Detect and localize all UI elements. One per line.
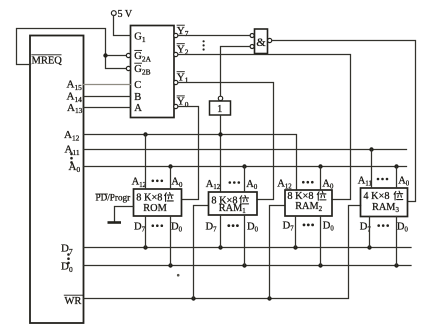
bubble Y1 output: [174, 80, 178, 84]
svg-text:RAM1: RAM1: [219, 203, 246, 215]
junction D7/RAM3: [367, 245, 371, 249]
wire MREQ loop to G2A/G2B: [17, 29, 127, 69]
svg-text:G2B: G2B: [134, 64, 150, 76]
svg-text:G2A: G2A: [134, 51, 151, 63]
ellipsis between Y7 and Y2 wires: [203, 40, 205, 50]
label MREQ (CPU pin): [31, 55, 62, 67]
wire RAM2 D0 pin: [320, 216, 322, 266]
power +5V terminal: [111, 9, 132, 20]
svg-text:A0: A0: [171, 177, 183, 189]
svg-text:D0: D0: [247, 222, 259, 234]
junction D7/RAM1: [218, 245, 222, 249]
wire gate output to RAM3 CS: [272, 41, 416, 202]
wire gate input 2 to inverter output: [221, 47, 251, 97]
svg-text:MREQ: MREQ: [32, 56, 63, 67]
bubble gate input 2: [250, 45, 254, 49]
wire RAM1 A0 pin: [244, 167, 246, 193]
wire ROM PD pin to ground: [115, 207, 134, 222]
wire RAM3 A11 pin: [371, 150, 373, 189]
wire Y1 to RAM1 CS: [178, 83, 274, 200]
wire Y2 to RAM2 CS: [178, 55, 351, 200]
CPU box: [30, 36, 84, 324]
wire ROM A0 pin: [170, 167, 172, 190]
svg-text:D7: D7: [283, 221, 295, 233]
junction D0/ROM: [168, 263, 172, 267]
junction A11/RAM3: [369, 147, 373, 151]
pin label G2A (active low): [134, 50, 151, 63]
ground: [108, 221, 122, 224]
wire RAM3 A0 pin: [396, 167, 398, 189]
RAM2 pin ellipsis top: [302, 181, 314, 184]
wire A11 bus: [84, 149, 407, 151]
wire D0 bus: [84, 265, 412, 267]
gate G1 (AND with inverted inputs) box: [255, 29, 268, 54]
svg-text:D0: D0: [61, 261, 73, 274]
RAM1 pin ellipsis top: [229, 181, 241, 184]
svg-text:A12: A12: [206, 179, 221, 191]
svg-text:1: 1: [217, 104, 222, 115]
svg-text:D7: D7: [206, 222, 218, 234]
svg-text:ROM: ROM: [143, 203, 166, 214]
svg-text:A0: A0: [322, 179, 334, 191]
wire D7 bus: [84, 247, 412, 249]
label Y2 output: [177, 43, 189, 56]
svg-text:WR: WR: [65, 296, 82, 307]
bubble gate input 1: [250, 34, 254, 38]
label Y0 output: [177, 96, 189, 109]
label PD/Progr: [95, 193, 130, 203]
label Y1 output: [177, 71, 189, 84]
svg-text:D7: D7: [134, 222, 146, 234]
ROM pin ellipsis top: [152, 180, 164, 183]
svg-text:RAM3: RAM3: [372, 202, 399, 214]
wire branch to G2A: [106, 55, 127, 57]
ellipsis between A11 and A0: [70, 153, 73, 164]
svg-text:D0: D0: [171, 222, 183, 234]
svg-text:G1: G1: [134, 32, 146, 44]
junction D0/RAM1: [242, 263, 246, 267]
bubble Y0 output: [174, 104, 178, 108]
wire RAM1 D0 pin: [244, 215, 246, 266]
inverter U2 box: [210, 101, 231, 115]
wire Y7 to gate input 1: [178, 35, 250, 37]
RAM1 pin ellipsis bottom: [227, 224, 238, 227]
wire ROM D0 pin: [170, 216, 172, 266]
svg-text:D0: D0: [323, 221, 335, 233]
RAM1 chip box: [209, 192, 258, 215]
wire inverter input from A12 bus / RAM1 A12 pin: [220, 115, 222, 192]
junction A12/ROM: [143, 132, 147, 136]
bubble inverter output: [218, 96, 222, 100]
svg-text:A12: A12: [277, 179, 292, 191]
wire RAM3 D0 pin: [396, 217, 398, 266]
junction WR/RAM1: [191, 296, 195, 300]
junction A12/RAM1/inverter: [218, 132, 222, 136]
bubble Y7 output: [174, 33, 178, 37]
stray ink dot: [177, 274, 180, 277]
wire WR bus to RAM3 WE: [84, 206, 361, 299]
junction MREQ branch: [103, 53, 107, 57]
svg-text:Y7: Y7: [177, 25, 189, 38]
bubble G2B input: [126, 66, 130, 70]
RAM3 chip box: [361, 188, 408, 217]
label WR (CPU pin): [64, 295, 83, 307]
svg-text:A: A: [134, 103, 142, 114]
decoder U1 (74LS138) box: [131, 26, 175, 118]
svg-text:A12: A12: [132, 177, 147, 189]
bubble Y2 output: [174, 52, 178, 56]
svg-text:C: C: [134, 80, 141, 91]
wire A13 to A: [84, 107, 131, 109]
junction A0/RAM2: [318, 164, 322, 168]
junction D7/RAM2: [293, 245, 297, 249]
svg-text:A0: A0: [246, 179, 258, 191]
wire A12 bus: [84, 135, 297, 191]
svg-text:A11: A11: [358, 176, 372, 188]
wire A0 bus: [84, 166, 407, 168]
junction D7/ROM: [143, 245, 147, 249]
svg-text:A0: A0: [398, 176, 410, 188]
wire RAM1 D7 pin: [220, 215, 222, 248]
wire A15 to C: [84, 84, 131, 86]
svg-text:D0: D0: [397, 222, 409, 234]
wire A14 to B: [84, 96, 131, 98]
junction D0/RAM2: [318, 263, 322, 267]
svg-text:RAM2: RAM2: [295, 201, 322, 213]
svg-text:8 K×8: 8 K×8: [136, 193, 162, 204]
junction A0/RAM3: [394, 164, 398, 168]
wire RAM2 A0 pin: [320, 167, 322, 191]
svg-text:4 K×8: 4 K×8: [363, 191, 389, 202]
ROM chip box: [134, 189, 182, 216]
bubble gate output: [268, 38, 272, 42]
RAM1 value label 8Kx8 bit: [211, 195, 248, 206]
ellipsis between D7 and D0: [67, 253, 70, 264]
svg-text:A12: A12: [64, 129, 80, 142]
junction A0/ROM: [168, 164, 172, 168]
wire RAM1 WE to WR: [194, 206, 209, 299]
label Y7 output: [177, 25, 189, 38]
wire RAM2 D7 pin: [295, 216, 297, 248]
bubble G2A input: [126, 53, 130, 57]
svg-text:&: &: [256, 35, 266, 49]
ROM pin ellipsis bottom: [152, 224, 164, 227]
pin label G2B (active low): [134, 63, 150, 76]
svg-text:A0: A0: [69, 161, 81, 174]
RAM3 value label 4Kx8 bit: [363, 191, 402, 202]
RAM2 value label 8Kx8 bit: [287, 191, 326, 202]
junction WR/RAM2: [267, 296, 271, 300]
junction D0/RAM3: [394, 263, 398, 267]
RAM2 pin ellipsis bottom: [303, 224, 314, 227]
RAM3 pin ellipsis top: [377, 178, 389, 181]
svg-text:5 V: 5 V: [118, 9, 133, 20]
ROM value label 8Kx8 bit: [136, 193, 173, 204]
RAM3 pin ellipsis bottom: [377, 224, 389, 227]
wire ROM A12 pin: [145, 135, 147, 190]
wire RAM2 WE to WR: [270, 206, 285, 299]
svg-text:B: B: [134, 92, 141, 103]
wire Y0 to ROM CS: [178, 107, 199, 200]
junction A0/RAM1: [242, 164, 246, 168]
RAM2 chip box: [285, 190, 332, 216]
svg-text:D7: D7: [61, 243, 73, 256]
wire RAM3 D7 pin: [369, 217, 371, 248]
wire ROM D7 pin: [145, 216, 147, 248]
wire 5V to G1: [114, 16, 131, 36]
